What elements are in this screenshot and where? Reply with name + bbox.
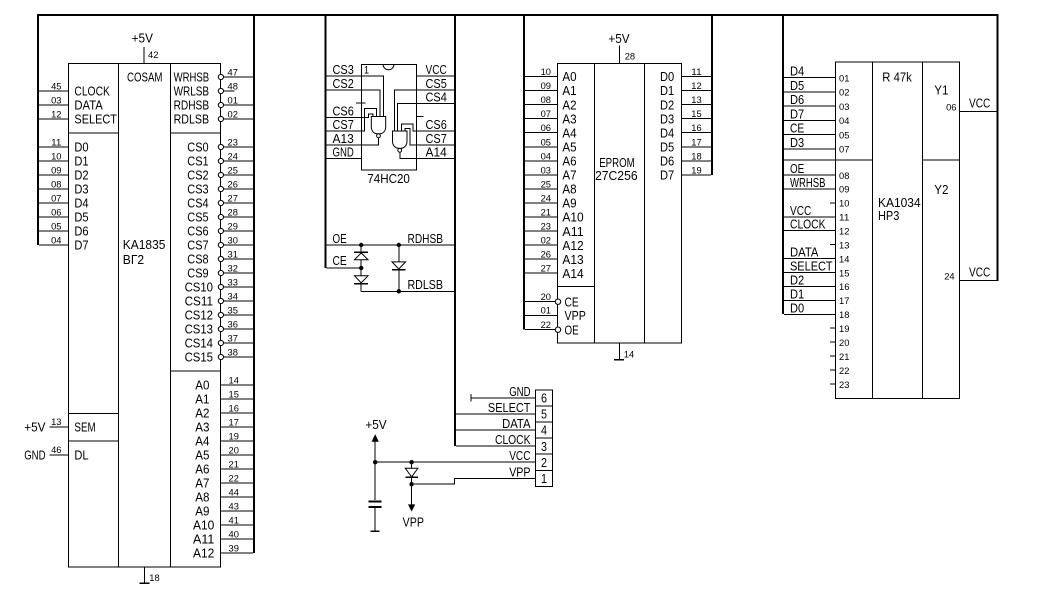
- svg-text:10: 10: [541, 67, 551, 78]
- svg-text:17: 17: [839, 296, 849, 307]
- svg-text:22: 22: [839, 366, 849, 377]
- svg-text:28: 28: [228, 208, 238, 219]
- svg-text:D6: D6: [660, 154, 674, 169]
- svg-text:A12: A12: [193, 546, 214, 561]
- pin 10 D1 of KA1835: [39, 160, 69, 162]
- pin 17 D5 of EPROM: [681, 146, 711, 148]
- IC D3 EPROM 27C256 body: [558, 63, 682, 343]
- wire net CS3 to 74HC20 left: [326, 75, 361, 77]
- svg-text:14: 14: [624, 349, 634, 360]
- wire net GND to 74HC20 left: [326, 158, 361, 160]
- pin 44 A8 of KA1835: [221, 496, 254, 498]
- pin 35 CS12 of KA1835 (inverted): [224, 314, 254, 316]
- pin 20 CE of EPROM (inverted): [525, 301, 555, 303]
- svg-text:04: 04: [541, 151, 551, 162]
- gate D2.1 output wire to A13: [362, 138, 379, 145]
- svg-text:SELECT: SELECT: [790, 259, 833, 274]
- pin 02 A12 of EPROM: [525, 244, 558, 246]
- svg-text:WRHSB: WRHSB: [790, 175, 826, 190]
- svg-text:CS12: CS12: [185, 308, 213, 323]
- wire net CS6 to 74HC20 left: [326, 116, 361, 118]
- pin 24 CS1 of KA1835 (inverted): [224, 160, 254, 162]
- svg-text:5: 5: [541, 407, 547, 422]
- pin 03 D6 of KA1034: [784, 105, 836, 107]
- pin 32 CS9 of KA1835 (inverted): [224, 272, 254, 274]
- pin 19 of KA1034 (unconnected stub): [830, 327, 836, 329]
- pin 04 D7 of KA1034: [784, 119, 836, 121]
- pin 21 of KA1034 (unconnected stub): [830, 355, 836, 357]
- svg-text:02: 02: [839, 88, 849, 99]
- pin 41 A10 of KA1835: [221, 524, 254, 526]
- svg-text:A2: A2: [195, 406, 209, 421]
- svg-text:14: 14: [839, 254, 849, 265]
- svg-text:11: 11: [691, 67, 701, 78]
- svg-text:25: 25: [541, 179, 551, 190]
- pin 05 CE of KA1034: [784, 134, 836, 136]
- svg-text:26: 26: [541, 250, 551, 261]
- pin 38 CS15 of KA1835 (inverted): [224, 356, 254, 358]
- svg-text:4: 4: [541, 423, 547, 438]
- svg-text:A4: A4: [562, 125, 576, 140]
- svg-text:02: 02: [228, 110, 238, 121]
- svg-text:VPP: VPP: [565, 308, 586, 323]
- svg-text:A11: A11: [193, 532, 214, 547]
- svg-text:A8: A8: [195, 490, 209, 505]
- svg-text:VCC: VCC: [969, 96, 990, 111]
- pin 24 Y2 of KA1034, net VCC: [960, 280, 997, 282]
- pin 05 A5 of EPROM: [525, 146, 558, 148]
- svg-text:Y2: Y2: [934, 182, 948, 197]
- svg-text:D2: D2: [660, 97, 674, 112]
- svg-text:27: 27: [228, 194, 238, 205]
- svg-text:35: 35: [228, 306, 238, 317]
- pin 46 DL of KA1835, net GND: [49, 454, 68, 456]
- gate D2.2 inverter circle: [398, 148, 402, 152]
- pin 10 A0 of EPROM: [525, 76, 558, 78]
- junction RDLSB: [397, 289, 401, 293]
- svg-text:05: 05: [541, 137, 551, 148]
- svg-text:A3: A3: [562, 111, 576, 126]
- svg-text:ВГ2: ВГ2: [123, 252, 144, 267]
- svg-text:A5: A5: [195, 448, 209, 463]
- wire right bus of EPROM: [711, 14, 713, 175]
- wire net VCC to X1.2: [375, 461, 535, 463]
- svg-text:20: 20: [229, 446, 239, 457]
- svg-text:RDHSB: RDHSB: [408, 231, 444, 246]
- IC D1 KA1835 COSAM body: [69, 64, 221, 568]
- svg-text:06: 06: [51, 208, 61, 219]
- pin 14 DATA of KA1034: [784, 258, 836, 260]
- svg-text:44: 44: [229, 488, 239, 499]
- svg-text:11: 11: [51, 138, 61, 149]
- svg-text:23: 23: [541, 222, 551, 233]
- pin 13 SEM of KA1835, net +5V: [49, 426, 68, 428]
- pin 16 D2 of KA1034: [784, 285, 836, 287]
- svg-text:46: 46: [51, 445, 61, 456]
- svg-text:11: 11: [839, 213, 849, 224]
- svg-text:DATA: DATA: [502, 416, 531, 431]
- svg-text:A6: A6: [195, 462, 209, 477]
- svg-text:16: 16: [691, 123, 701, 134]
- pin 17 D1 of KA1034: [784, 299, 836, 301]
- wire net DATA to X1.4: [456, 429, 536, 431]
- wire right bus of 74HC20: [454, 14, 456, 446]
- svg-text:DATA: DATA: [790, 245, 819, 260]
- svg-text:+5V: +5V: [132, 30, 154, 45]
- pin 04 D7 of KA1835: [39, 244, 69, 246]
- svg-text:OE: OE: [565, 322, 579, 337]
- svg-text:3: 3: [541, 439, 547, 454]
- svg-text:12: 12: [839, 227, 849, 238]
- svg-text:A5: A5: [562, 140, 576, 155]
- svg-text:24: 24: [541, 193, 551, 204]
- svg-text:1: 1: [541, 471, 547, 486]
- svg-text:13: 13: [51, 417, 61, 428]
- pin 13 D2 of EPROM: [681, 104, 711, 106]
- pin 25 A8 of EPROM: [525, 188, 558, 190]
- svg-text:21: 21: [229, 460, 239, 471]
- svg-text:36: 36: [228, 320, 238, 331]
- svg-text:09: 09: [541, 81, 551, 92]
- wire left bus of KA1034: [782, 14, 784, 314]
- svg-text:CS1: CS1: [187, 154, 208, 169]
- svg-text:D5: D5: [660, 140, 674, 155]
- pin 07 D4 of KA1835: [39, 202, 69, 204]
- svg-text:CS2: CS2: [333, 76, 354, 91]
- power VPP arrow symbol: [411, 484, 413, 505]
- pin 33 CS10 of KA1835 (inverted): [224, 286, 254, 288]
- svg-text:16: 16: [229, 404, 239, 415]
- svg-text:GND: GND: [509, 384, 530, 399]
- svg-text:+5V: +5V: [365, 417, 387, 432]
- svg-text:23: 23: [228, 138, 238, 149]
- svg-text:VPP: VPP: [403, 515, 424, 530]
- wire net OE / RDHSB: [326, 244, 454, 246]
- svg-text:05: 05: [51, 222, 61, 233]
- svg-text:GND: GND: [24, 448, 45, 463]
- svg-text:CS4: CS4: [426, 90, 447, 105]
- svg-text:GND: GND: [333, 145, 354, 160]
- svg-text:6: 6: [541, 391, 547, 406]
- pin 12 CLOCK of KA1034: [784, 230, 836, 232]
- svg-text:74HC20: 74HC20: [367, 171, 410, 186]
- wire net VPP to X1.1: [414, 478, 536, 484]
- pin 13 of KA1034 (unconnected stub): [830, 244, 836, 246]
- svg-text:RDHSB: RDHSB: [174, 98, 210, 113]
- svg-text:CS6: CS6: [333, 103, 354, 118]
- svg-text:18: 18: [839, 310, 849, 321]
- pin 11 D0 of KA1835: [39, 146, 69, 148]
- pin 06 A4 of EPROM: [525, 132, 558, 134]
- svg-text:VCC: VCC: [790, 203, 811, 218]
- svg-text:CS14: CS14: [185, 336, 213, 351]
- svg-text:10: 10: [839, 199, 849, 210]
- diode VD3 (cathode down): [398, 245, 400, 262]
- svg-text:12: 12: [691, 81, 701, 92]
- wire left bus of EPROM: [523, 14, 525, 330]
- svg-text:04: 04: [51, 236, 61, 247]
- pin 11 D0 of EPROM: [681, 76, 711, 78]
- pin 14 A0 of KA1835: [221, 384, 254, 386]
- pin 20 of KA1034 (unconnected stub): [830, 341, 836, 343]
- svg-text:02: 02: [541, 236, 551, 247]
- pin 22 of KA1034 (unconnected stub): [830, 369, 836, 371]
- svg-text:25: 25: [228, 166, 238, 177]
- svg-text:34: 34: [228, 292, 238, 303]
- svg-text:17: 17: [691, 137, 701, 148]
- pin 06 Y1 of KA1034, net VCC: [960, 111, 997, 113]
- svg-text:12: 12: [51, 110, 61, 121]
- junction OE-VD3: [397, 243, 401, 247]
- svg-text:OE: OE: [790, 161, 804, 176]
- svg-text:D0: D0: [790, 300, 804, 315]
- svg-text:WRHSB: WRHSB: [174, 70, 210, 85]
- notch of 74HC20: [383, 64, 394, 70]
- svg-text:D6: D6: [790, 92, 804, 107]
- pin 17 A3 of KA1835: [221, 426, 254, 428]
- svg-text:D7: D7: [660, 168, 674, 183]
- svg-text:CS5: CS5: [187, 210, 208, 225]
- svg-text:47: 47: [228, 68, 238, 79]
- svg-text:D2: D2: [790, 272, 804, 287]
- svg-text:CS13: CS13: [185, 322, 213, 337]
- svg-text:A6: A6: [562, 154, 576, 169]
- svg-text:1: 1: [364, 65, 369, 77]
- svg-text:48: 48: [228, 82, 238, 93]
- pin 22 A7 of KA1835: [221, 482, 254, 484]
- svg-text:KA1835: KA1835: [123, 237, 166, 252]
- svg-text:A11: A11: [562, 224, 583, 239]
- svg-text:37: 37: [228, 334, 238, 345]
- pin 11 VCC of KA1034: [784, 216, 836, 218]
- svg-text:06: 06: [946, 103, 956, 114]
- IC D4 KA1034 HP3 body: [836, 62, 960, 399]
- svg-text:COSAM: COSAM: [127, 70, 163, 85]
- svg-text:15: 15: [229, 390, 239, 401]
- pin 45 CLOCK of KA1835: [39, 90, 69, 92]
- pin 22 OE of EPROM (inverted): [525, 329, 555, 331]
- svg-text:HP3: HP3: [878, 208, 899, 223]
- svg-text:39: 39: [229, 544, 239, 555]
- svg-text:CS3: CS3: [187, 182, 208, 197]
- svg-text:04: 04: [839, 116, 849, 127]
- pin 24 A9 of EPROM: [525, 202, 558, 204]
- pin 12 SELECT of KA1835: [39, 118, 69, 120]
- overline mark right CS6: [417, 115, 424, 117]
- pin 05 D6 of KA1835: [39, 230, 69, 232]
- svg-text:A13: A13: [562, 252, 583, 267]
- svg-text:A10: A10: [193, 518, 214, 533]
- svg-text:CS8: CS8: [187, 252, 208, 267]
- pin 26 A13 of EPROM: [525, 258, 558, 260]
- svg-text:CS11: CS11: [185, 294, 213, 309]
- svg-text:CS10: CS10: [185, 280, 213, 295]
- gate D2.2 NAND body: [393, 131, 408, 148]
- svg-text:19: 19: [691, 165, 701, 176]
- pin 34 CS11 of KA1835 (inverted): [224, 300, 254, 302]
- wire net CS2 to 74HC20 left: [326, 89, 361, 91]
- wire net CS6 to 74HC20 right: [417, 130, 454, 132]
- svg-text:20: 20: [839, 338, 849, 349]
- diode VD2 (cathode down): [360, 268, 362, 276]
- pin 39 A12 of KA1835: [221, 552, 254, 554]
- pin 04 A6 of EPROM: [525, 160, 558, 162]
- power +5V pin 28 of EPROM: [619, 46, 621, 64]
- wire right bus VCC of KA1034: [997, 14, 999, 281]
- svg-text:VCC: VCC: [969, 265, 990, 280]
- svg-text:+5V: +5V: [24, 420, 46, 435]
- junction VPP node: [409, 482, 413, 486]
- svg-text:D3: D3: [660, 111, 674, 126]
- wire net VCC to 74HC20 right: [417, 75, 454, 77]
- svg-text:A9: A9: [562, 196, 576, 211]
- svg-text:15: 15: [839, 268, 849, 279]
- wire net CS4 to 74HC20 right: [417, 103, 454, 105]
- svg-text:RDLSB: RDLSB: [408, 277, 444, 292]
- svg-text:+5V: +5V: [608, 31, 630, 46]
- wire right bus of KA1835: [253, 14, 255, 553]
- gate D2.1 inverter circle: [377, 134, 381, 138]
- svg-text:08: 08: [51, 180, 61, 191]
- pin 18 D0 of KA1034: [784, 313, 836, 315]
- svg-text:D5: D5: [74, 210, 88, 225]
- diode VD4 (cathode down): [411, 462, 413, 468]
- wire net CS7 to 74HC20 left: [326, 130, 361, 132]
- pin 40 A11 of KA1835: [221, 538, 254, 540]
- wire net CLOCK to X1.3: [456, 445, 536, 447]
- svg-text:19: 19: [839, 324, 849, 335]
- svg-text:CS9: CS9: [187, 266, 208, 281]
- svg-text:29: 29: [228, 222, 238, 233]
- wire left bus of 74HC20: [324, 14, 326, 268]
- svg-text:03: 03: [51, 96, 61, 107]
- svg-text:SEM: SEM: [74, 420, 95, 435]
- svg-text:15: 15: [691, 109, 701, 120]
- svg-text:A4: A4: [195, 434, 209, 449]
- svg-text:30: 30: [228, 236, 238, 247]
- svg-text:A0: A0: [562, 69, 576, 84]
- wire left bus of KA1835: [37, 14, 39, 245]
- ground pin 18 of KA1835: [144, 567, 146, 583]
- pin 15 A1 of KA1835: [221, 398, 254, 400]
- pin 15 SELECT of KA1034: [784, 272, 836, 274]
- svg-text:CE: CE: [790, 121, 804, 136]
- svg-text:03: 03: [541, 165, 551, 176]
- ground pin 14 of EPROM: [619, 343, 621, 360]
- svg-text:D1: D1: [74, 154, 88, 169]
- svg-text:18: 18: [691, 151, 701, 162]
- svg-text:16: 16: [839, 282, 849, 293]
- pin 07 D3 of KA1034: [784, 148, 836, 150]
- gate D2.1 NAND input wires: [362, 76, 384, 116]
- IC D2 74HC20 body: [362, 64, 417, 170]
- svg-text:13: 13: [839, 241, 849, 252]
- svg-text:CS2: CS2: [187, 168, 208, 183]
- svg-text:19: 19: [229, 432, 239, 443]
- svg-text:40: 40: [229, 530, 239, 541]
- svg-text:21: 21: [839, 352, 849, 363]
- pin 23 of KA1034 (unconnected stub): [830, 383, 836, 385]
- svg-text:WRLSB: WRLSB: [174, 84, 210, 99]
- wire net CS5 to 74HC20 right: [417, 89, 454, 91]
- svg-text:D7: D7: [74, 238, 88, 253]
- svg-text:CS7: CS7: [187, 238, 208, 253]
- svg-text:18: 18: [149, 573, 159, 584]
- svg-text:D6: D6: [74, 224, 88, 239]
- pin 31 CS8 of KA1835 (inverted): [224, 258, 254, 260]
- pin 12 D1 of EPROM: [681, 90, 711, 92]
- junction CE node: [359, 266, 363, 270]
- svg-text:41: 41: [229, 516, 239, 527]
- pin 15 D3 of EPROM: [681, 118, 711, 120]
- pin 23 A11 of EPROM: [525, 230, 558, 232]
- gate D2.1 NAND body: [371, 117, 385, 134]
- svg-text:A7: A7: [562, 168, 576, 183]
- svg-text:D7: D7: [790, 106, 804, 121]
- wire net RDLSB: [361, 290, 454, 292]
- svg-text:27C256: 27C256: [595, 168, 638, 183]
- svg-text:CS4: CS4: [187, 196, 208, 211]
- svg-text:OE: OE: [333, 231, 347, 246]
- pin 37 CS14 of KA1835 (inverted): [224, 342, 254, 344]
- svg-text:33: 33: [228, 278, 238, 289]
- overline mark left CS6: [356, 102, 366, 104]
- pin 01 RDHSB of KA1835 (inverted): [224, 104, 254, 106]
- svg-text:VCC: VCC: [509, 448, 530, 463]
- svg-text:CS6: CS6: [187, 224, 208, 239]
- svg-text:32: 32: [228, 264, 238, 275]
- svg-text:01: 01: [541, 306, 551, 317]
- svg-text:CLOCK: CLOCK: [495, 432, 531, 447]
- svg-text:A1: A1: [195, 392, 209, 407]
- power +5V pin 42 of KA1835: [143, 47, 145, 64]
- svg-text:DL: DL: [74, 448, 88, 463]
- junction VCC/VD4: [409, 460, 413, 464]
- pin 03 DATA of KA1835: [39, 104, 69, 106]
- svg-text:A7: A7: [195, 476, 209, 491]
- svg-text:R 47k: R 47k: [882, 69, 912, 84]
- svg-text:D0: D0: [660, 69, 674, 84]
- svg-text:2: 2: [541, 455, 547, 470]
- pin 16 D4 of EPROM: [681, 132, 711, 134]
- pin 09 A1 of EPROM: [525, 90, 558, 92]
- pin 48 WRLSB of KA1835 (inverted): [224, 90, 235, 92]
- pin 28 CS5 of KA1835 (inverted): [224, 216, 254, 218]
- svg-text:D1: D1: [790, 286, 804, 301]
- svg-text:09: 09: [839, 185, 849, 196]
- svg-text:21: 21: [541, 208, 551, 219]
- svg-text:A14: A14: [562, 266, 583, 281]
- junction OE-VD1: [359, 243, 363, 247]
- pin 18 D6 of EPROM: [681, 160, 711, 162]
- svg-text:D4: D4: [660, 125, 674, 140]
- svg-text:D2: D2: [74, 168, 88, 183]
- svg-text:A0: A0: [195, 378, 209, 393]
- svg-text:SELECT: SELECT: [74, 112, 117, 127]
- svg-text:07: 07: [839, 145, 849, 156]
- svg-text:23: 23: [839, 380, 849, 391]
- svg-text:A12: A12: [562, 238, 583, 253]
- pin 09 D2 of KA1835: [39, 174, 69, 176]
- svg-text:D1: D1: [660, 83, 674, 98]
- wire net A14 to 74HC20 right: [417, 158, 454, 160]
- svg-text:43: 43: [229, 502, 239, 513]
- pin 09 WRHSB of KA1034: [784, 188, 836, 190]
- svg-text:22: 22: [229, 474, 239, 485]
- svg-text:24: 24: [944, 272, 954, 283]
- svg-text:08: 08: [839, 171, 849, 182]
- pin 10 of KA1034 (unconnected stub): [830, 202, 836, 204]
